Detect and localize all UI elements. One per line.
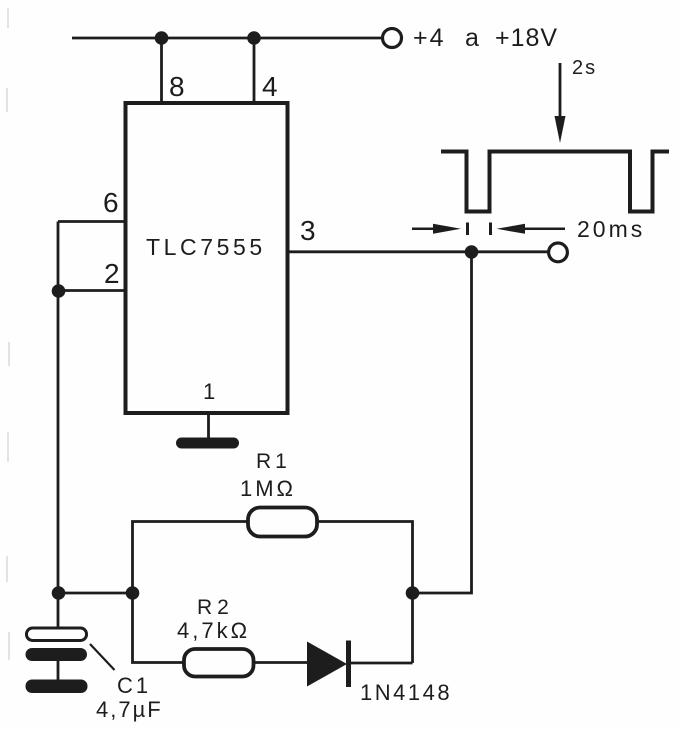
dimension ticks	[466, 223, 469, 236]
svg-text:C1: C1	[117, 673, 151, 698]
svg-text:2s: 2s	[572, 57, 597, 79]
output terminal circle	[549, 243, 568, 262]
wire top supply rail	[72, 37, 381, 40]
svg-text:4,7kΩ: 4,7kΩ	[177, 618, 250, 643]
node junction cap top	[52, 586, 66, 600]
wire middle horizontal	[58, 592, 133, 595]
svg-text:a: a	[465, 24, 479, 52]
wire pin 4	[253, 38, 256, 103]
node junction pin8 on rail	[155, 31, 169, 45]
wire R2 branch right	[411, 593, 414, 663]
svg-text:2: 2	[104, 258, 120, 289]
dimension arrow right	[497, 224, 526, 234]
wire pin 6	[58, 220, 126, 223]
ground symbol under C1	[26, 680, 88, 694]
supply terminal circle	[383, 29, 402, 48]
wire R1 top loop	[133, 522, 249, 594]
node junction R loop right	[406, 586, 420, 600]
svg-text:1MΩ: 1MΩ	[240, 476, 296, 501]
capacitor C1 top plate	[27, 628, 87, 641]
wire R2 to diode	[254, 661, 308, 664]
wire output down	[413, 252, 472, 593]
node junction pin2	[52, 284, 66, 298]
svg-text:+18V: +18V	[495, 24, 558, 52]
svg-text:3: 3	[300, 215, 316, 246]
2s arrow	[559, 63, 562, 120]
svg-text:1N4148: 1N4148	[360, 680, 452, 705]
node junction R loop left	[126, 586, 140, 600]
waveform pulse train	[441, 152, 669, 212]
dimension arrow left	[412, 228, 436, 231]
wire pin 8	[160, 38, 163, 103]
wire cap to ground	[57, 661, 60, 680]
node output junction	[465, 245, 479, 259]
svg-text:1: 1	[203, 379, 215, 404]
svg-text:4,7µF: 4,7µF	[96, 697, 163, 722]
svg-text:8: 8	[169, 71, 185, 102]
wire pin 3 output	[288, 250, 549, 253]
ground symbol pin 1	[176, 438, 239, 449]
wire left vertical bus	[57, 222, 60, 629]
node junction pin4 on rail	[247, 31, 261, 45]
pointer line C1	[90, 644, 115, 670]
resistor R1 body	[248, 508, 317, 537]
svg-text:R1: R1	[256, 450, 291, 473]
wire diode to right	[351, 662, 413, 665]
svg-text:6: 6	[103, 187, 119, 218]
wire pin 2	[58, 289, 126, 292]
wire pin 1	[207, 413, 210, 440]
svg-text:+4: +4	[413, 24, 446, 52]
capacitor C1 bottom plate	[26, 648, 88, 661]
wire R2 branch left	[133, 593, 185, 663]
svg-text:R2: R2	[197, 596, 234, 619]
resistor R2 body	[184, 649, 254, 677]
diode D1 1N4148	[307, 642, 347, 687]
svg-text:TLC7555: TLC7555	[146, 234, 266, 260]
svg-text:4: 4	[262, 71, 278, 102]
IC U1 TLC7555 box	[126, 103, 288, 413]
svg-text:20ms: 20ms	[577, 216, 645, 242]
